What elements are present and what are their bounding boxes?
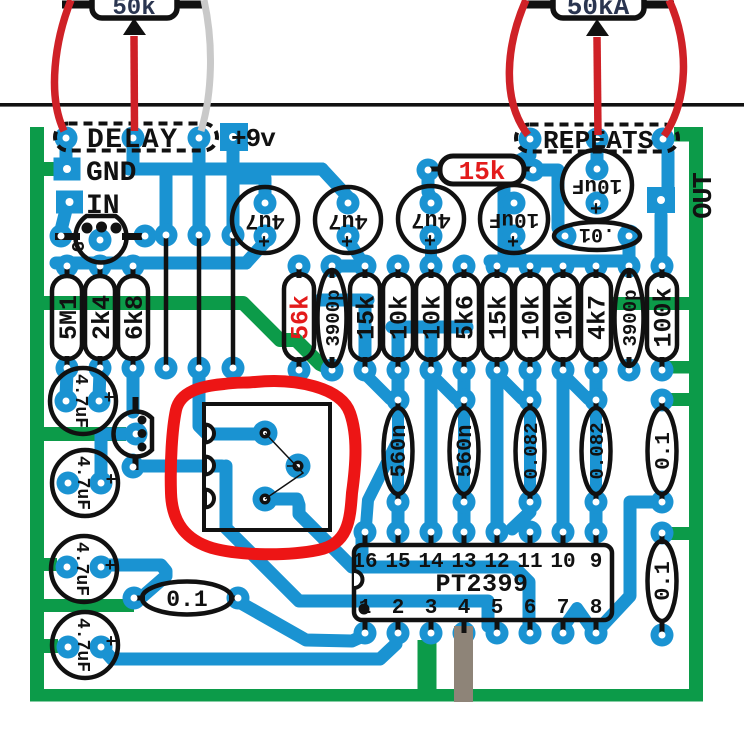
wire: 4.7uF C10 right pad to 0.1 C12 left pad [101, 565, 166, 598]
svg-text:10k: 10k [551, 295, 580, 340]
wire: trimpot pad C to PT2399 pin16 and inner bus to pin6 [268, 499, 529, 627]
wire: diagonal 560n to PT2399 pin16 pad [366, 442, 397, 526]
wire: pad to trimpot pad A [199, 372, 258, 434]
wire: green ground bus right vertical [689, 127, 703, 701]
svg-text:3900p: 3900p [323, 289, 345, 346]
wire: verticals behind film cap bodies [392, 405, 404, 497]
wire: resistor bottoms to film cap top pads verticals [392, 372, 405, 397]
node +9v pad [220, 123, 248, 151]
capacitor 4.7uF C8 [50, 368, 116, 434]
wire: REPEATS pad1 elbow down to 10uF C4 [504, 145, 530, 257]
wire: green stub to 0.1 cap C12 left pad [44, 599, 134, 612]
IC U1 pin stubs [365, 533, 596, 632]
svg-text:10k: 10k [419, 295, 448, 340]
wire: blue horizontal behind 10k resistors at y327 [392, 321, 467, 334]
capacitor 3900p [318, 270, 347, 366]
trimpot VR1 pins [260, 428, 304, 505]
node GND pad [54, 158, 81, 181]
svg-text:1: 1 [359, 597, 372, 620]
wire: DELAY pad2 down and long horizontal to 4u7 C2 [127, 143, 140, 169]
transistor Q2 leads [133, 397, 139, 412]
wire: .01 C7 right pad down to 3900p top [623, 241, 636, 261]
wire: PT2399 pins 7-8 bridge [563, 608, 591, 628]
svg-text:8: 8 [590, 597, 603, 620]
svg-text:9: 9 [590, 551, 603, 574]
wire: +9v pad column down with branch to 4u7 C1 [227, 148, 240, 234]
wire: 5M1 bottom to 4.7uF C8 left pad [66, 372, 67, 397]
svg-text:0.1: 0.1 [166, 587, 207, 613]
svg-text:0.1: 0.1 [651, 561, 676, 601]
svg-text:4u7: 4u7 [245, 208, 285, 233]
wire: red wire pot1 wiper to DELAY pad2 [130, 36, 138, 131]
wire: green horizontal trace behind 100k resistor [612, 297, 692, 310]
svg-text:4.7uF: 4.7uF [71, 542, 91, 596]
wire: green ground bus left vertical [30, 127, 44, 701]
svg-text:4.7uF: 4.7uF [70, 374, 90, 428]
resistor 100k [647, 274, 679, 360]
resistor 10k [515, 274, 547, 360]
wire: vertical behind 15k resistor [359, 300, 372, 368]
U1 pin numbers top row 16-9 [352, 551, 602, 574]
svg-text:0.082: 0.082 [587, 422, 609, 479]
svg-text:15k: 15k [485, 295, 514, 340]
svg-text:GND: GND [86, 158, 136, 189]
wire: long bottom horizontal from 4.7uF C11 to PT2399 pin2 [103, 634, 396, 659]
potentiometer 50k (DELAY pot) [62, 0, 207, 35]
capacitor 4u7 C3 [398, 186, 464, 254]
capacitor 3900p [615, 270, 644, 366]
wire: 0.1 C13 bottom pad to PT2399 pin8 [597, 502, 660, 630]
svg-text:+: + [341, 232, 353, 255]
wire: green stub to 4.7uF C11 left pad [44, 639, 58, 653]
U1 pin numbers bottom row 1-8 [359, 597, 603, 620]
svg-text:56k: 56k [287, 295, 316, 340]
svg-text:+: + [507, 232, 519, 255]
wire: trimpot notch2 down, diagonal to PT2399 pin5 [226, 466, 488, 626]
svg-text:5k6: 5k6 [452, 295, 481, 340]
svg-text:10uF: 10uF [489, 207, 539, 230]
op-amp U1 PT2399 body [354, 545, 612, 620]
resistor 15k [482, 274, 514, 360]
resistor 10k [548, 274, 580, 360]
svg-text:3900p: 3900p [620, 289, 642, 346]
wire: 4u7 C2 bottom diagonal down [348, 240, 362, 261]
wire: 6k8 bottom to transistor Q2 top [127, 372, 140, 412]
capacitor 560n [450, 408, 479, 494]
wire: grey wire pot1 lug3 to DELAY pad3 [201, 0, 210, 131]
svg-text:PT2399: PT2399 [435, 570, 528, 599]
capacitor .01 C7 [554, 222, 640, 250]
wire: green stub 100k bottom pad to right bus [668, 361, 692, 374]
svg-text:+: + [590, 199, 602, 222]
svg-text:16: 16 [352, 551, 377, 574]
trimpot VR1 footprint box [204, 404, 330, 530]
resistor 5k6 [449, 274, 481, 360]
svg-text:0.082: 0.082 [521, 422, 543, 479]
red annotation circle around trimpot [171, 381, 356, 554]
capacitor 4.7uF C9 [52, 450, 118, 516]
svg-text:5: 5 [491, 597, 504, 620]
resistor and cap lead stubs [67, 169, 662, 634]
svg-text:+: + [106, 471, 117, 491]
capacitor 0.082 [582, 408, 611, 494]
node IN pad [56, 191, 83, 214]
node OUT pad [647, 187, 675, 213]
wire: OUT pad down to 100k top [655, 215, 668, 261]
svg-text:+: + [104, 389, 115, 409]
capacitor 10uF C6 [562, 150, 632, 222]
wire: red wire pot1 lug1 to DELAY pad1 [55, 0, 71, 131]
potentiometer 50kA (REPEATS pot) [523, 0, 674, 36]
svg-text:10: 10 [550, 551, 575, 574]
svg-text:15k: 15k [459, 157, 506, 187]
wire: green trace from PT2399 pin 3 to bottom bus [418, 640, 437, 695]
wire: REPEATS pad2 to 10uF C6 [591, 145, 604, 163]
svg-text:2k4: 2k4 [88, 295, 117, 340]
svg-text:4: 4 [458, 597, 471, 620]
wire: row y261 horizontal bus right [490, 255, 622, 268]
svg-text:3: 3 [425, 597, 438, 620]
wire: row y266 horizontal bus left [56, 257, 246, 270]
wire link W1 vertical [164, 236, 169, 365]
svg-text:15k: 15k [353, 295, 382, 340]
wire: red wire pot2 lug1 to REPEATS pad1 [509, 0, 528, 135]
svg-text:+: + [106, 633, 117, 653]
svg-text:G: G [70, 241, 90, 252]
svg-text:IN: IN [86, 191, 120, 222]
svg-text:10k: 10k [386, 295, 415, 340]
capacitor 0.1 [648, 408, 677, 494]
wire: IN pad down to transistor Q1 [61, 206, 67, 230]
capacitor 4u7 C1 [232, 187, 298, 255]
svg-text:0.1: 0.1 [653, 432, 676, 470]
resistor 15k [350, 274, 382, 360]
resistor 56k [284, 274, 316, 360]
U1 pin4 stub over grey wire [462, 620, 467, 633]
wire: green stub to 4.7uF C10 left pad [44, 558, 57, 571]
node: board pads grid [50, 127, 675, 659]
svg-text:+: + [105, 557, 116, 577]
svg-text:OUT: OUT [690, 172, 720, 218]
svg-text:+: + [424, 231, 436, 254]
resistor 10k [416, 274, 448, 360]
wire: 4.7uF C9 right pad up to transistor Q2 center [101, 434, 130, 478]
wire: green stub 0.1 cap C14 top pad to right bus [666, 527, 692, 540]
transistor Q1 leads [55, 233, 80, 240]
capacitor 10uF C4 [480, 185, 548, 255]
wire: 4u7 C3 bottom vertical down [425, 240, 437, 261]
trimpot VR pads [253, 421, 278, 446]
wire: diagonals resistor row to cap row [365, 374, 390, 399]
wire: blue horizontal behind 3900p/15k at y300 [320, 294, 368, 307]
wire: green ground bus bottom horizontal [30, 689, 703, 702]
resistor 15k R-top [440, 156, 524, 187]
svg-text:+9v: +9v [231, 124, 276, 154]
svg-text:10k: 10k [518, 295, 547, 340]
transistor Q1 [70, 216, 127, 262]
transistor Q2 [113, 412, 152, 457]
wire: green main horizontal trace behind resistors to 3900p cap [44, 303, 331, 369]
capacitor 0.1 C14 [648, 541, 677, 621]
pad holes [58, 133, 667, 651]
svg-text:4.7uF: 4.7uF [72, 618, 92, 672]
wire: vertical behind 10k resistor x398 [392, 327, 405, 370]
capacitor 0.1 C12 [142, 582, 232, 615]
svg-text:560n: 560n [387, 425, 412, 478]
wire: DELAY pad3 column down [193, 143, 206, 234]
wire: red wire pot2 lug3 to REPEATS pad3 [664, 0, 683, 136]
svg-text:5M1: 5M1 [55, 295, 84, 340]
svg-text:15: 15 [385, 551, 410, 574]
wire link W3 vertical [231, 236, 236, 365]
svg-text:6: 6 [524, 597, 537, 620]
wire: REPEATS pad3 elbow to OUT pad [663, 144, 668, 190]
resistor 4k7 [581, 274, 613, 360]
svg-text:50kA: 50kA [567, 0, 630, 22]
wire: green stub to GND pad [44, 162, 58, 176]
svg-text:6k8: 6k8 [121, 295, 150, 340]
resistor 6k8 [118, 276, 150, 359]
svg-text:4u7: 4u7 [411, 207, 451, 232]
svg-text:100k: 100k [650, 287, 679, 347]
wire: link column x166 top [160, 172, 173, 234]
resistor 5M1 [52, 276, 84, 359]
svg-text:2: 2 [392, 597, 405, 620]
svg-text:10uF: 10uF [572, 173, 622, 196]
capacitor 4.7uF C11 [52, 612, 118, 678]
wire link W2 vertical [197, 236, 202, 365]
wire: green stub left near 4.7uF C9 [44, 427, 126, 441]
resistor 2k4 [85, 276, 117, 359]
svg-text:+: + [258, 232, 270, 255]
wire: top horizontal separator line [0, 103, 744, 107]
resistor 10k [383, 274, 415, 360]
capacitor 4u7 C2 [315, 187, 381, 255]
wire: red wire pot2 wiper to REPEATS pad2 [597, 37, 598, 135]
svg-text:4u7: 4u7 [328, 208, 368, 233]
capacitor 560n [384, 408, 413, 494]
wire: cap bottoms to IC top pads verticals [590, 504, 603, 529]
wire: 15k R4 left pad down to 4u7 C3 [428, 175, 431, 198]
wire: green stub 0.1 cap C13 top pad to right bus [666, 393, 692, 406]
capacitor 4.7uF C10 [51, 536, 117, 602]
wire: 15k R4 right pad over to .01 C7 left pad [538, 170, 564, 235]
svg-text:4.7uF: 4.7uF [72, 456, 92, 510]
wire: transistor Q2 bottom to trimpot notch horizontal [133, 460, 222, 466]
svg-text:7: 7 [557, 597, 570, 620]
wire: 2k4 bottom to 4.7uF C8 right pad [99, 372, 100, 397]
svg-text:.01: .01 [579, 222, 615, 245]
capacitor 0.082 [516, 408, 545, 494]
wire: DELAY pad1 to GND pad [60, 143, 73, 161]
svg-text:4k7: 4k7 [584, 295, 613, 340]
node REPEATS header dashed box [516, 125, 678, 152]
wire: green stub top right corner to REPEATS pad3 [674, 127, 703, 142]
wire: vertical behind 10k resistor x431 [425, 327, 438, 370]
wire: row 266 link 3900p to 15k [332, 260, 365, 273]
wire: long verticals between film caps [425, 372, 438, 529]
svg-text:560n: 560n [453, 425, 478, 478]
wire: grey wire PT2399 pin4 to off-board [454, 626, 473, 702]
node DELAY header dashed box [55, 124, 217, 151]
wire: 0.1 C12 right pad to PT2399 pin1 [239, 602, 363, 641]
